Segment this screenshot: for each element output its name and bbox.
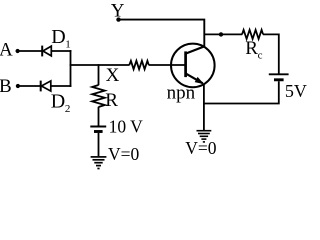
svg-text:c: c: [258, 50, 263, 62]
label D1: [51, 26, 71, 51]
diode D2 triangle: [41, 81, 50, 91]
wire A to D1: [18, 50, 42, 52]
wire D2 to junction: [51, 85, 72, 87]
svg-text:R: R: [245, 38, 258, 59]
resistor base zigzag: [129, 61, 149, 69]
svg-text:A: A: [0, 40, 13, 61]
battery 5V short plate: [274, 78, 284, 81]
svg-text:1: 1: [65, 39, 71, 51]
svg-text:5V: 5V: [285, 81, 307, 101]
svg-text:V=0: V=0: [108, 144, 140, 164]
diode D1 cathode bar: [41, 46, 43, 57]
wire battery to ground: [98, 133, 100, 156]
ground left: [91, 157, 107, 169]
label Rc: [245, 38, 262, 62]
wire B to D2: [18, 85, 41, 87]
transistor base bar: [184, 51, 187, 77]
svg-text:B: B: [0, 76, 12, 97]
wire emitter to ground: [203, 104, 205, 131]
transistor emitter arrow: [195, 77, 205, 84]
svg-text:D: D: [51, 26, 65, 48]
resistor Rc zigzag: [242, 30, 263, 39]
wire collector to Rc: [204, 33, 242, 35]
wire D1 to junction: [51, 50, 71, 52]
svg-text:V=0: V=0: [185, 138, 217, 158]
transistor Q1 circle: [171, 44, 215, 88]
wire Rc to battery: [263, 34, 279, 73]
transistor collector arm: [186, 46, 205, 53]
wire X branch down: [98, 64, 100, 85]
transistor emitter arm: [186, 73, 203, 83]
wire junction to base resistor: [70, 64, 130, 66]
node Y dot: [116, 17, 120, 21]
wire resistor to base: [149, 64, 186, 66]
diode D2 cathode bar: [40, 81, 42, 92]
svg-text:10 V: 10 V: [109, 117, 144, 137]
battery 5V long plate: [269, 73, 289, 75]
node dot on collector wire: [219, 32, 223, 36]
svg-text:X: X: [106, 65, 120, 86]
wire Y to collector: [119, 20, 205, 47]
svg-text:2: 2: [65, 103, 71, 115]
wire R to battery: [98, 107, 100, 126]
node A dot: [16, 49, 20, 53]
label D2: [51, 91, 71, 115]
svg-text:npn: npn: [167, 83, 196, 104]
wire diode junction vertical: [70, 50, 72, 87]
wire emitter down: [203, 84, 205, 105]
svg-text:D: D: [51, 91, 65, 113]
ground right: [197, 131, 212, 142]
node B dot: [16, 84, 20, 88]
wire 5V to emitter: [204, 81, 279, 103]
resistor R zigzag: [92, 85, 105, 107]
diode D1 triangle: [43, 46, 51, 56]
battery 10V long plate: [90, 126, 106, 128]
battery 10V short plate: [94, 130, 103, 133]
svg-text:R: R: [105, 90, 118, 111]
